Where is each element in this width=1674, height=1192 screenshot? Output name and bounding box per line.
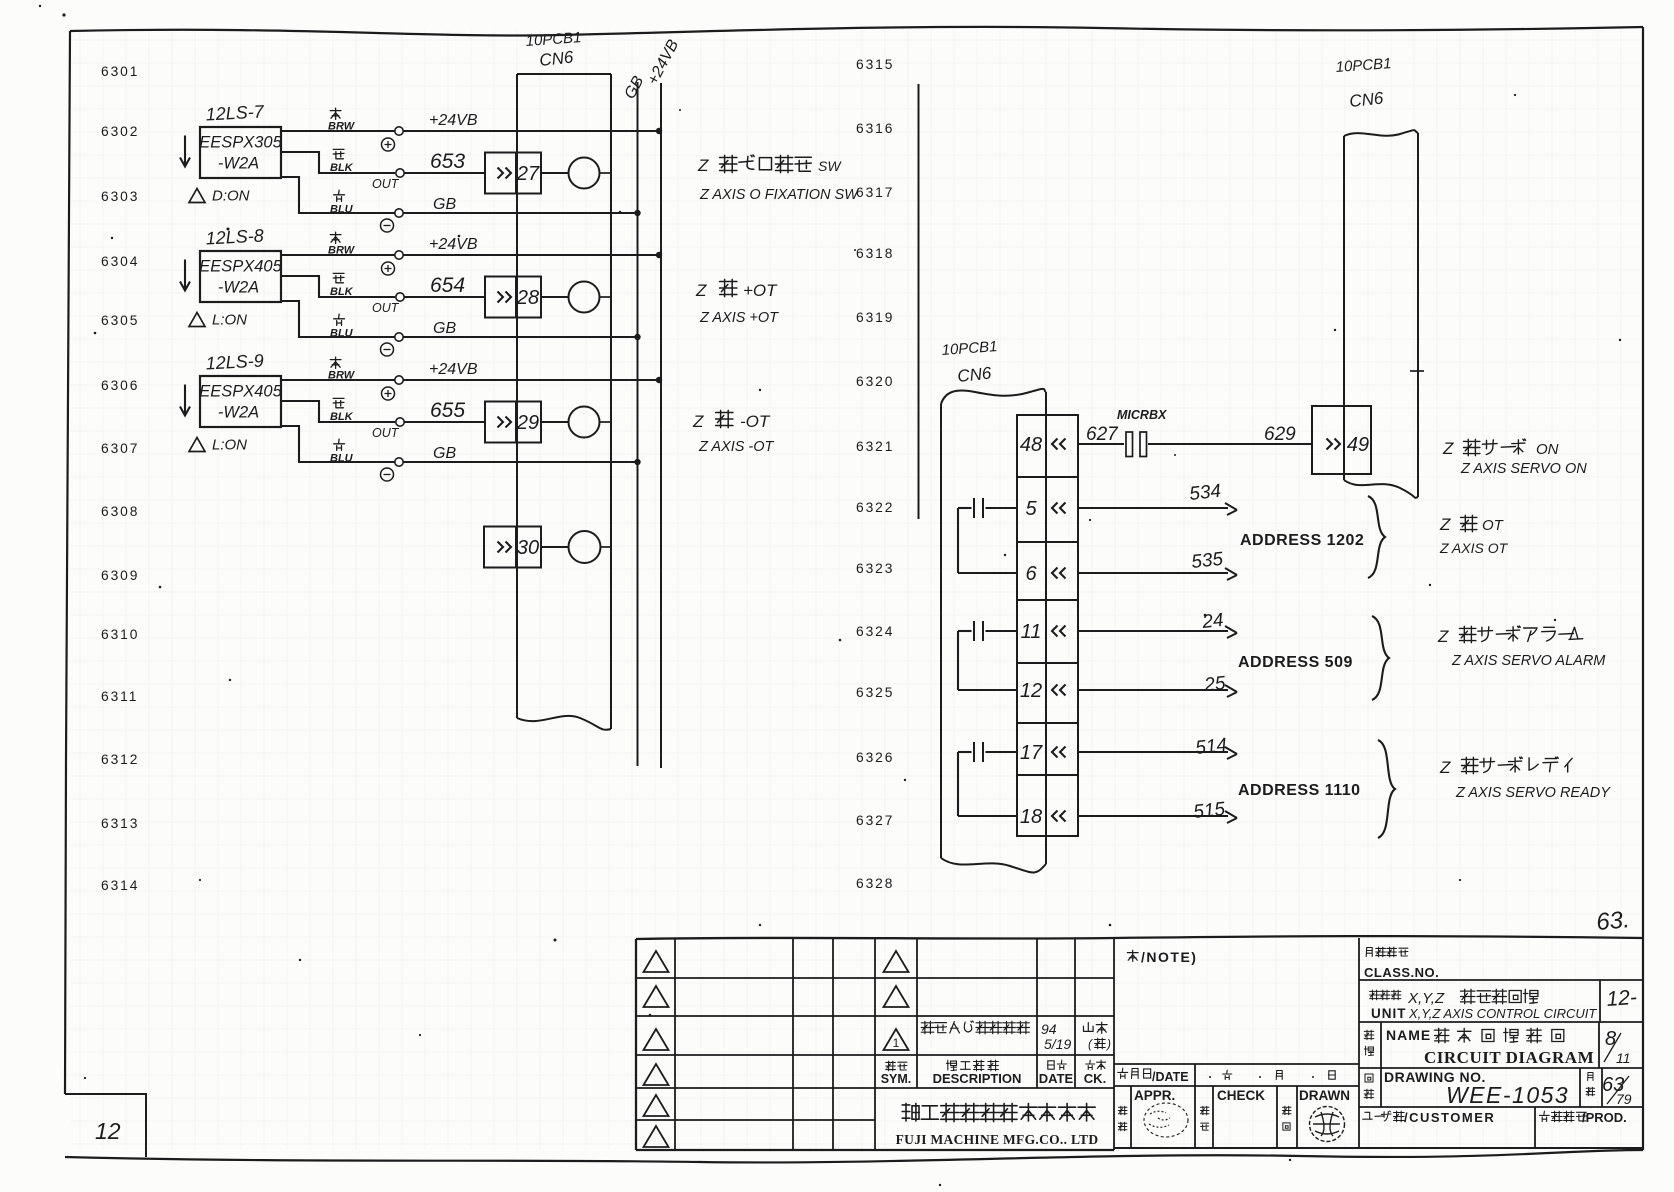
svg-text:EESPX405: EESPX405 bbox=[199, 383, 282, 401]
svg-text:-W2A: -W2A bbox=[218, 404, 259, 422]
revision table right grid bbox=[917, 937, 1114, 1150]
contact capacitor pins 5-6 bbox=[958, 498, 1017, 573]
svg-text:629: 629 bbox=[1264, 424, 1296, 445]
revision triangle L4 bbox=[644, 1064, 669, 1085]
signal wire 24 bbox=[1078, 610, 1237, 638]
terminal circle BLU bbox=[395, 209, 403, 217]
contact capacitor pins 17-18 bbox=[958, 742, 1017, 816]
revision header DATE bbox=[1039, 1060, 1074, 1086]
svg-text:MICRBX: MICRBX bbox=[1117, 408, 1167, 422]
svg-text:CIRCUIT DIAGRAM: CIRCUIT DIAGRAM bbox=[1424, 1048, 1594, 1067]
svg-text:BLK: BLK bbox=[330, 286, 354, 298]
chevrons into pin 17 bbox=[1052, 747, 1066, 758]
label BLK bbox=[330, 273, 354, 298]
sheet number box 12 bbox=[65, 1094, 146, 1157]
svg-text:11: 11 bbox=[1021, 621, 1042, 643]
svg-text:5: 5 bbox=[1025, 498, 1037, 520]
wire BRW +24VB (12LS-9) bbox=[281, 379, 658, 381]
annotation Z AXIS SERVO ON bbox=[1460, 461, 1587, 477]
svg-text:11: 11 bbox=[1616, 1050, 1631, 1066]
svg-text:FUJI MACHINE MFG.CO.. LTD: FUJI MACHINE MFG.CO.. LTD bbox=[896, 1132, 1099, 1147]
signal wire 535 bbox=[1078, 549, 1237, 580]
pin column boxes (48,5,6,11,12,17,18) bbox=[1017, 415, 1078, 836]
brace servo ready group bbox=[1378, 740, 1395, 838]
chevrons into pin 18 bbox=[1052, 811, 1066, 822]
svg-text:6309: 6309 bbox=[101, 568, 139, 583]
svg-text:DATE: DATE bbox=[1039, 1071, 1074, 1086]
revision header DESCRIPTION bbox=[933, 1060, 1022, 1086]
svg-text:1: 1 bbox=[893, 1036, 900, 1050]
revision triangle R2 bbox=[884, 986, 909, 1007]
svg-text:-OT: -OT bbox=[740, 412, 771, 431]
arrow-in box and pin 27 bbox=[485, 153, 541, 194]
svg-text:/NOTE): /NOTE) bbox=[1141, 949, 1197, 965]
svg-text:-W2A: -W2A bbox=[218, 279, 259, 297]
svg-text:CLASS.NO.: CLASS.NO. bbox=[1364, 965, 1439, 980]
annotation Z axis OT (japanese) bbox=[1439, 515, 1505, 534]
pin number 11 bbox=[1021, 621, 1042, 643]
label ADDRESS 1110 bbox=[1238, 782, 1361, 799]
label OUT bbox=[372, 426, 400, 440]
svg-text:63.: 63. bbox=[1595, 906, 1631, 936]
label BLU bbox=[330, 439, 354, 464]
chevrons into pin 11 bbox=[1052, 626, 1066, 637]
pin number 18 bbox=[1020, 806, 1042, 828]
svg-text:12LS-8: 12LS-8 bbox=[205, 225, 264, 248]
svg-text:6327: 6327 bbox=[856, 813, 894, 828]
drawn stamp bbox=[1310, 1107, 1345, 1142]
label ADDRESS 1202 bbox=[1240, 532, 1364, 549]
svg-text:/PROD.: /PROD. bbox=[1582, 1110, 1627, 1125]
svg-text:Z: Z bbox=[1439, 758, 1451, 777]
label BLK bbox=[330, 398, 354, 423]
svg-text:94: 94 bbox=[1041, 1021, 1057, 1037]
drawing no box bbox=[1359, 1068, 1643, 1108]
connector 10PCB1 CN6 (right section left) outline bbox=[941, 389, 1046, 873]
chevrons into pin 5 bbox=[1052, 503, 1066, 514]
svg-text:CN6: CN6 bbox=[538, 47, 574, 70]
svg-text:+24VB: +24VB bbox=[429, 361, 478, 378]
svg-text:6321: 6321 bbox=[856, 439, 894, 454]
customer box bbox=[1359, 1107, 1643, 1148]
svg-text:49: 49 bbox=[1347, 434, 1369, 456]
svg-text:CK.: CK. bbox=[1084, 1071, 1106, 1086]
svg-text:ADDRESS 1110: ADDRESS 1110 bbox=[1238, 782, 1361, 799]
svg-text:BRW: BRW bbox=[328, 245, 356, 257]
svg-text:NAME: NAME bbox=[1386, 1027, 1431, 1043]
revision triangle R1 bbox=[884, 951, 909, 972]
wire 627 bbox=[1078, 424, 1124, 445]
svg-text:Z: Z bbox=[1442, 439, 1454, 458]
annotation Z axis servo ready (japanese) bbox=[1439, 757, 1572, 777]
junction dot +24VB bus bbox=[656, 128, 662, 134]
label CN6 (left connector) bbox=[538, 47, 574, 70]
svg-text:EESPX305: EESPX305 bbox=[199, 134, 282, 152]
connector 10PCB1 CN6 left outline bbox=[517, 74, 611, 730]
svg-text:OUT: OUT bbox=[372, 301, 400, 315]
svg-text:6322: 6322 bbox=[856, 500, 894, 515]
wire BLU GB (12LS-7) bbox=[281, 177, 638, 213]
brace OT group bbox=[1368, 496, 1385, 578]
label BLK bbox=[330, 149, 354, 174]
label BLU bbox=[330, 190, 354, 215]
date row boxes bbox=[1114, 1064, 1359, 1148]
svg-text:6324: 6324 bbox=[856, 624, 894, 639]
svg-text:79: 79 bbox=[1616, 1091, 1632, 1107]
svg-text:655: 655 bbox=[430, 399, 465, 422]
svg-text:+OT: +OT bbox=[743, 281, 778, 300]
connector 10PCB1 CN6 (top right) outline bbox=[1344, 130, 1424, 498]
chevrons into pin 48 bbox=[1052, 439, 1066, 450]
wire BLU GB (12LS-9) bbox=[281, 426, 638, 462]
annotation Z AXIS 0 FIXATION SW bbox=[699, 187, 859, 203]
terminal circle BRW bbox=[395, 127, 403, 135]
svg-text:27: 27 bbox=[516, 163, 540, 185]
chevrons into pin 6 bbox=[1052, 568, 1066, 579]
label BRW bbox=[328, 108, 356, 132]
svg-text:BLU: BLU bbox=[330, 204, 354, 216]
svg-text:6316: 6316 bbox=[856, 121, 894, 136]
revision header SYM bbox=[881, 1061, 912, 1086]
revision header CK bbox=[1084, 1060, 1106, 1086]
svg-text:+24VB: +24VB bbox=[429, 112, 478, 129]
svg-text:Z AXIS O FIXATION SW: Z AXIS O FIXATION SW bbox=[699, 187, 859, 203]
arrow-in box and pin 30 bbox=[484, 527, 541, 568]
svg-text:WEE-1053: WEE-1053 bbox=[1446, 1082, 1569, 1108]
svg-text:12: 12 bbox=[1020, 680, 1042, 702]
label BRW bbox=[328, 357, 356, 381]
annotation Z axis servo on (japanese) bbox=[1442, 439, 1559, 458]
sign columns APPR CHECK DRAWN bbox=[1114, 1086, 1359, 1148]
junction dot GB bus bbox=[634, 210, 640, 216]
svg-text:6: 6 bbox=[1025, 563, 1037, 585]
warning triangle D:ON bbox=[189, 188, 250, 205]
svg-text:+24VB: +24VB bbox=[429, 236, 478, 253]
arrow-in box and pin 49 bbox=[1312, 406, 1371, 474]
revision 1 entry text bbox=[921, 1021, 1111, 1052]
revision triangle L5 bbox=[644, 1095, 669, 1116]
label +24VB wire bbox=[429, 361, 478, 378]
label 12LS-9 bbox=[205, 350, 264, 373]
company name Fuji Machine Mfg bbox=[896, 1103, 1099, 1147]
signal wire 515 bbox=[1078, 799, 1237, 823]
wire BLU GB (12LS-8) bbox=[281, 301, 638, 337]
svg-text:627: 627 bbox=[1086, 424, 1119, 445]
name box bbox=[1359, 1022, 1643, 1107]
svg-text:6313: 6313 bbox=[101, 816, 139, 831]
plus terminal mark bbox=[382, 262, 395, 275]
minus terminal mark bbox=[381, 468, 394, 481]
brace servo alarm group bbox=[1372, 616, 1389, 700]
capacitor MICRBX bbox=[1117, 408, 1167, 457]
svg-text:6317: 6317 bbox=[856, 185, 894, 200]
svg-text:BRW: BRW bbox=[328, 370, 356, 382]
svg-text:Z AXIS -OT: Z AXIS -OT bbox=[698, 439, 775, 455]
svg-text:BLK: BLK bbox=[330, 411, 354, 423]
annotation Z AXIS OT (handwritten) bbox=[1439, 540, 1509, 556]
svg-text:CN6: CN6 bbox=[956, 363, 992, 386]
annotation Z axis zero fixation sw (japanese) bbox=[697, 155, 842, 175]
signal wire 534 bbox=[1078, 481, 1237, 515]
revision triangle L6 bbox=[644, 1126, 669, 1147]
page number 63 bbox=[1595, 906, 1631, 936]
svg-text:Z: Z bbox=[1437, 627, 1449, 646]
svg-text:6311: 6311 bbox=[101, 689, 138, 704]
svg-text:6315: 6315 bbox=[856, 57, 894, 72]
svg-text:12LS-7: 12LS-7 bbox=[205, 101, 265, 124]
junction dot GB bus bbox=[634, 459, 640, 465]
label GB wire bbox=[433, 445, 456, 462]
wire BLK OUT 653 (12LS-7) bbox=[281, 152, 485, 173]
plus terminal mark bbox=[382, 138, 395, 151]
svg-text:6325: 6325 bbox=[856, 685, 894, 700]
svg-text:48: 48 bbox=[1020, 434, 1042, 456]
svg-text:L:ON: L:ON bbox=[212, 437, 247, 454]
svg-text:Z: Z bbox=[695, 281, 707, 300]
svg-text:6314: 6314 bbox=[101, 878, 139, 893]
label ADDRESS 509 bbox=[1238, 654, 1353, 671]
pin number 6 bbox=[1025, 563, 1037, 585]
pin number 17 bbox=[1020, 742, 1043, 764]
svg-text:Z: Z bbox=[697, 156, 709, 175]
label 12LS-8 bbox=[205, 225, 264, 248]
signal wire 514 bbox=[1078, 735, 1237, 759]
svg-text:6319: 6319 bbox=[856, 310, 894, 325]
revision table left grid bbox=[636, 939, 1114, 1150]
+24VB bus vertical bbox=[660, 83, 662, 768]
arrow-in box and pin 28 bbox=[485, 277, 541, 318]
svg-text:Z AXIS OT: Z AXIS OT bbox=[1439, 540, 1509, 556]
limit switch 12LS-9 box bbox=[199, 376, 282, 427]
annotation Z AXIS +OT bbox=[699, 310, 779, 326]
revision triangle L3 bbox=[644, 1029, 669, 1050]
svg-text:CN6: CN6 bbox=[1348, 88, 1384, 111]
svg-text:6302: 6302 bbox=[101, 124, 139, 139]
revision triangle L1 bbox=[644, 951, 669, 972]
output circle (pin 27) bbox=[541, 158, 611, 189]
svg-text:654: 654 bbox=[430, 274, 465, 297]
svg-text:6318: 6318 bbox=[856, 246, 894, 261]
svg-text:12-: 12- bbox=[1606, 986, 1638, 1011]
minus terminal mark bbox=[381, 343, 394, 356]
GB bus label bbox=[622, 73, 648, 102]
svg-text:SYM.: SYM. bbox=[881, 1072, 912, 1086]
svg-text:6310: 6310 bbox=[101, 627, 139, 642]
svg-text:12: 12 bbox=[95, 1118, 121, 1144]
junction dot +24VB bus bbox=[656, 252, 662, 258]
terminal circle BRW bbox=[395, 251, 403, 259]
label +24VB wire bbox=[429, 112, 478, 129]
output circle (pin 30) bbox=[541, 531, 611, 563]
label 10PCB1 (mid connector) bbox=[941, 338, 998, 359]
svg-text:6328: 6328 bbox=[856, 876, 894, 891]
note area box bbox=[1114, 938, 1359, 1148]
svg-text:SW: SW bbox=[818, 158, 842, 174]
svg-text:DRAWN: DRAWN bbox=[1299, 1088, 1350, 1103]
svg-text:/CUSTOMER: /CUSTOMER bbox=[1404, 1110, 1495, 1125]
annotation Z AXIS SERVO ALARM bbox=[1451, 653, 1606, 669]
middle line numbers 6315-6328 bbox=[856, 57, 894, 891]
svg-text:BLU: BLU bbox=[330, 453, 354, 465]
wire number 653 bbox=[430, 150, 465, 173]
pin number 48 bbox=[1020, 434, 1042, 456]
svg-text:OT: OT bbox=[1482, 517, 1505, 534]
svg-text:Z AXIS +OT: Z AXIS +OT bbox=[699, 310, 779, 326]
terminal circle BLU bbox=[395, 458, 403, 466]
svg-text:6301: 6301 bbox=[101, 64, 139, 79]
wire BRW +24VB (12LS-8) bbox=[281, 254, 658, 256]
svg-text:X,Y,Z: X,Y,Z bbox=[1407, 990, 1445, 1007]
wire BLK OUT 654 (12LS-8) bbox=[281, 276, 485, 297]
svg-text:OUT: OUT bbox=[372, 426, 400, 440]
label NOTE bbox=[1127, 949, 1197, 965]
annotation Z axis +OT (japanese) bbox=[695, 279, 778, 300]
limit switch 12LS-7 box bbox=[199, 127, 282, 178]
svg-text:Z: Z bbox=[1439, 515, 1451, 534]
title block outer top line bbox=[636, 936, 1643, 939]
down arrow (12LS-8) bbox=[180, 260, 190, 291]
svg-text:BLK: BLK bbox=[330, 162, 354, 174]
svg-text:5/19: 5/19 bbox=[1044, 1036, 1071, 1052]
svg-text:BLU: BLU bbox=[330, 328, 354, 340]
svg-text:APPR.: APPR. bbox=[1134, 1088, 1175, 1103]
svg-text:6323: 6323 bbox=[856, 561, 894, 576]
unit box bbox=[1359, 980, 1643, 1022]
junction dot GB bus bbox=[634, 334, 640, 340]
label 10PCB1 (left connector) bbox=[525, 29, 582, 50]
warning triangle L:ON bbox=[189, 312, 247, 329]
svg-text:Z AXIS SERVO READY: Z AXIS SERVO READY bbox=[1455, 785, 1611, 801]
svg-text:GB: GB bbox=[433, 445, 456, 462]
svg-text:CHECK: CHECK bbox=[1217, 1088, 1265, 1103]
label GB wire bbox=[433, 320, 456, 337]
terminal circle BLK bbox=[396, 293, 404, 301]
svg-text:12LS-9: 12LS-9 bbox=[205, 350, 264, 373]
svg-text:Z AXIS SERVO ON: Z AXIS SERVO ON bbox=[1460, 461, 1587, 477]
class no box bbox=[1359, 947, 1643, 980]
svg-text:30: 30 bbox=[517, 537, 539, 559]
warning triangle L:ON bbox=[189, 437, 247, 454]
revision triangle R3 bbox=[884, 1029, 909, 1050]
svg-text:24: 24 bbox=[1200, 610, 1224, 633]
svg-text:UNIT: UNIT bbox=[1371, 1006, 1407, 1021]
svg-text:515: 515 bbox=[1192, 799, 1226, 823]
chevrons into pin 12 bbox=[1052, 685, 1066, 696]
wire BRW +24VB (12LS-7) bbox=[281, 130, 658, 132]
svg-text:GB: GB bbox=[433, 196, 456, 213]
wire 629 bbox=[1148, 424, 1312, 445]
svg-text:653: 653 bbox=[430, 150, 465, 173]
down arrow (12LS-9) bbox=[180, 385, 190, 416]
svg-text:6308: 6308 bbox=[101, 504, 139, 519]
svg-text:BRW: BRW bbox=[328, 121, 356, 133]
svg-text:DESCRIPTION: DESCRIPTION bbox=[933, 1071, 1022, 1086]
pin number 5 bbox=[1025, 498, 1037, 520]
label CN6 (right connector) bbox=[1348, 88, 1384, 111]
limit switch 12LS-8 box bbox=[199, 251, 282, 302]
svg-text:/DATE: /DATE bbox=[1152, 1070, 1189, 1084]
svg-text:6305: 6305 bbox=[101, 313, 139, 328]
svg-text:25: 25 bbox=[1202, 673, 1227, 696]
svg-text:D:ON: D:ON bbox=[212, 188, 250, 205]
svg-text:6307: 6307 bbox=[101, 441, 139, 456]
svg-text:514: 514 bbox=[1194, 735, 1228, 759]
terminal circle BLK bbox=[396, 169, 404, 177]
label BLU bbox=[330, 314, 354, 339]
svg-text:535: 535 bbox=[1190, 549, 1224, 573]
svg-text:GB: GB bbox=[433, 320, 456, 337]
annotation Z AXIS SERVO READY bbox=[1455, 785, 1611, 801]
terminal circle BRW bbox=[395, 376, 403, 384]
svg-text:6326: 6326 bbox=[856, 750, 894, 765]
output circle (pin 28) bbox=[541, 282, 611, 313]
svg-text:L:ON: L:ON bbox=[212, 312, 247, 329]
label OUT bbox=[372, 301, 400, 315]
minus terminal mark bbox=[381, 219, 394, 232]
terminal circle BLK bbox=[396, 418, 404, 426]
left line numbers 6301-6314 bbox=[101, 64, 139, 893]
label BRW bbox=[328, 232, 356, 256]
arrow-in box and pin 29 bbox=[485, 402, 541, 443]
svg-text:28: 28 bbox=[516, 287, 539, 309]
svg-text:ON: ON bbox=[1536, 441, 1559, 458]
svg-text:29: 29 bbox=[516, 412, 539, 434]
svg-text:-W2A: -W2A bbox=[218, 155, 259, 173]
down arrow (12LS-7) bbox=[180, 136, 190, 167]
label OUT bbox=[372, 177, 400, 191]
label CN6 (mid connector) bbox=[956, 363, 992, 386]
svg-text:Z: Z bbox=[692, 412, 704, 431]
plus terminal mark bbox=[382, 387, 395, 400]
svg-text:8: 8 bbox=[1605, 1028, 1616, 1050]
svg-text:534: 534 bbox=[1188, 481, 1222, 505]
svg-text:ADDRESS 1202: ADDRESS 1202 bbox=[1240, 532, 1364, 549]
label +24VB wire bbox=[429, 236, 478, 253]
wire number 655 bbox=[430, 399, 465, 422]
svg-text:17: 17 bbox=[1020, 742, 1043, 764]
label 12LS-7 bbox=[205, 101, 265, 124]
revision triangle L2 bbox=[644, 986, 669, 1007]
pin number 12 bbox=[1020, 680, 1042, 702]
svg-text:6306: 6306 bbox=[101, 378, 139, 393]
svg-text:18: 18 bbox=[1020, 806, 1042, 828]
svg-text:ADDRESS 509: ADDRESS 509 bbox=[1238, 654, 1353, 671]
junction dot +24VB bus bbox=[656, 377, 662, 383]
label GB wire bbox=[433, 196, 456, 213]
wire number 654 bbox=[430, 274, 465, 297]
output circle (pin 29) bbox=[541, 407, 611, 438]
svg-text:EESPX405: EESPX405 bbox=[199, 258, 282, 276]
annotation Z axis -OT (japanese) bbox=[692, 410, 771, 431]
signal wire 25 bbox=[1078, 673, 1237, 697]
svg-text:6320: 6320 bbox=[856, 374, 894, 389]
contact capacitor pins 11-12 bbox=[958, 621, 1017, 690]
svg-text:OUT: OUT bbox=[372, 177, 400, 191]
svg-text:6304: 6304 bbox=[101, 254, 139, 269]
GB bus vertical bbox=[637, 82, 639, 766]
+24VB bus label bbox=[645, 37, 683, 88]
section divider line bbox=[918, 84, 920, 519]
svg-text:Z AXIS SERVO ALARM: Z AXIS SERVO ALARM bbox=[1451, 653, 1606, 669]
approval stamp bbox=[1144, 1103, 1188, 1137]
svg-text:X,Y,Z AXIS CONTROL CIRCUIT: X,Y,Z AXIS CONTROL CIRCUIT bbox=[1408, 1006, 1597, 1021]
annotation Z axis servo alarm (japanese) bbox=[1437, 626, 1583, 646]
terminal circle BLU bbox=[395, 333, 403, 341]
wire BLK OUT 655 (12LS-9) bbox=[281, 401, 485, 422]
label 10PCB1 (right connector) bbox=[1335, 55, 1392, 76]
annotation Z AXIS -OT bbox=[698, 439, 775, 455]
svg-text:6312: 6312 bbox=[101, 752, 139, 767]
